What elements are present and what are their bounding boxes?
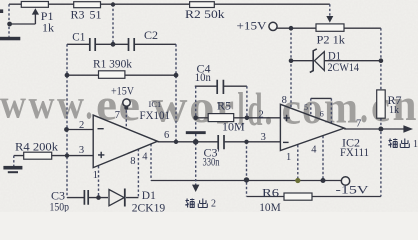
svg-text:o: o [189, 81, 215, 133]
svg-text:4: 4 [311, 145, 317, 156]
svg-text:4: 4 [142, 151, 148, 162]
svg-text:C2: C2 [144, 28, 158, 42]
svg-text:1k: 1k [389, 105, 399, 116]
svg-text:6: 6 [164, 130, 169, 141]
svg-text:R4 200k: R4 200k [15, 140, 58, 154]
svg-text:C1: C1 [72, 29, 85, 43]
svg-text:10M: 10M [222, 119, 245, 133]
svg-text:+15V: +15V [237, 18, 267, 32]
svg-text:150p: 150p [50, 200, 70, 213]
svg-text:1: 1 [286, 152, 291, 163]
svg-text:2: 2 [211, 199, 216, 210]
svg-text:7: 7 [115, 110, 120, 121]
svg-text:1: 1 [93, 170, 98, 181]
svg-text:1k: 1k [42, 21, 54, 35]
svg-text:2: 2 [259, 110, 264, 121]
svg-text:-15V: -15V [336, 182, 369, 196]
svg-text:P2 1k: P2 1k [317, 33, 346, 47]
svg-text:330n: 330n [203, 154, 220, 168]
svg-text:m: m [324, 82, 358, 133]
svg-text:+15V: +15V [111, 84, 134, 98]
svg-text:R6: R6 [262, 185, 279, 199]
svg-text:7: 7 [356, 118, 361, 129]
svg-text:FX111: FX111 [340, 145, 369, 159]
svg-text:FX101: FX101 [140, 108, 171, 122]
svg-text:51: 51 [90, 7, 102, 21]
svg-text:R1 390k: R1 390k [93, 57, 132, 71]
svg-text:.: . [86, 82, 93, 128]
svg-text:2CK19: 2CK19 [132, 201, 166, 213]
svg-text:6: 6 [320, 110, 324, 119]
svg-text:.: . [265, 83, 273, 135]
svg-text:5: 5 [304, 103, 308, 112]
svg-text:10n: 10n [195, 70, 211, 84]
svg-text:R5: R5 [217, 98, 231, 112]
svg-text:R3: R3 [71, 7, 85, 21]
svg-text:8: 8 [282, 95, 287, 106]
svg-text:w: w [0, 81, 26, 127]
svg-text:10M: 10M [259, 200, 281, 212]
svg-text:w: w [29, 81, 55, 127]
svg-text:2CW14: 2CW14 [328, 60, 360, 74]
svg-text:8: 8 [130, 156, 135, 167]
svg-text:2: 2 [79, 120, 84, 131]
svg-text:3: 3 [261, 132, 266, 143]
svg-text:3: 3 [79, 145, 84, 156]
svg-text:R2 50k: R2 50k [185, 7, 225, 21]
svg-text:1: 1 [413, 139, 418, 150]
